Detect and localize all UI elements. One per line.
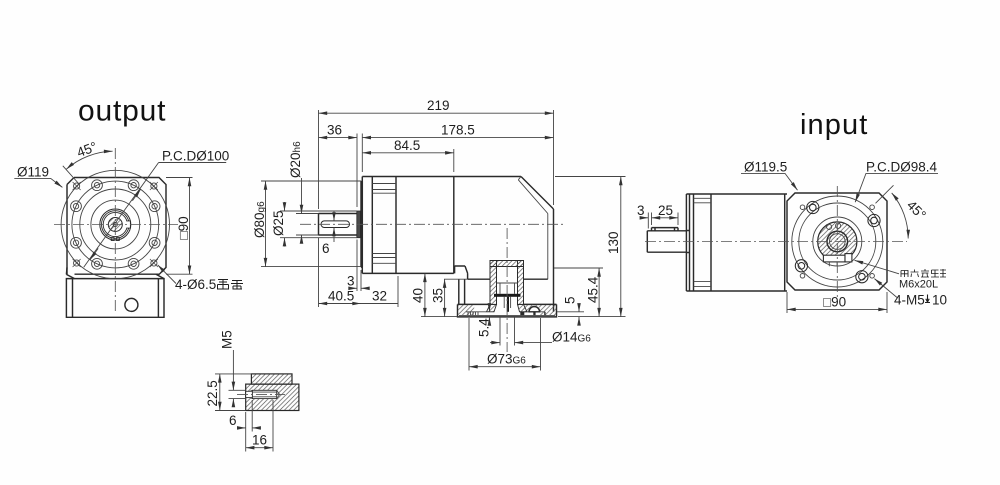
dim 6 keyway [333,212,335,221]
right face inner [547,214,549,280]
dim 16 [246,400,273,452]
4 socket head screws M6 [795,201,880,282]
PCD diameter diagonal with arrows [84,163,159,268]
dim 32 [397,276,399,307]
inner boss circle [91,200,140,249]
dim D80g6 [261,181,361,267]
output shaft [319,214,358,236]
hole centerline [237,393,285,395]
centerline horizontal [54,224,178,226]
dim 5.4 [488,305,490,312]
input square flange (chamfered corners) [787,193,887,290]
svg-text:□90: □90 [823,294,846,309]
dim 3 and 25 [648,213,678,229]
bottom flange outline [458,304,557,317]
4 corner through holes [73,182,158,267]
svg-text:4-M5: 4-M5 [894,293,925,308]
svg-text:M5: M5 [220,330,235,349]
svg-text:6: 6 [229,413,237,428]
45 deg arc [892,193,909,239]
dim 84.5 [453,149,455,172]
body bottom edge [362,272,454,274]
45 deg arc dimension [66,151,112,169]
shaft bore [103,212,127,236]
thread lines [252,392,276,397]
dim 40 [424,273,426,316]
dim 5 [557,311,584,313]
svg-text:Ø25: Ø25 [271,210,286,236]
dim D73G6 [469,318,541,371]
dim 6 [246,400,253,432]
centerline vertical [114,148,116,312]
svg-text:32: 32 [372,288,387,303]
base housing box below flange [66,279,164,318]
coupling counterbore [827,231,848,252]
flange hatch left [458,305,474,315]
output shaft (side) [647,231,686,252]
leader 4-M5 [874,279,897,298]
centerline vertical [836,186,838,299]
svg-text:40: 40 [411,288,426,303]
svg-text:5.4: 5.4 [477,318,492,337]
drill point [277,390,280,398]
dim D25 [280,211,357,238]
svg-text:130: 130 [606,231,621,254]
4 M5 tapped holes [800,205,874,278]
D119 leader [14,178,62,187]
svg-text:Ø119.5: Ø119.5 [744,160,787,175]
dim 22.5 [215,374,251,411]
thread ticks bottom left [468,312,478,316]
collar step [686,231,689,253]
wall flare right [518,304,528,311]
dim 130 [555,177,626,317]
svg-text:5: 5 [563,296,578,304]
depth symbol [925,295,930,303]
keyway strip hatched [251,374,292,384]
bottom face extension line [421,316,458,318]
M5 thread hole [252,390,276,398]
8 bolt holes on PCD [71,180,160,269]
svg-text:3: 3 [347,274,355,289]
coupling screw holes [827,224,832,229]
flange hatch right [540,305,557,315]
outer circle (D119) [61,170,169,278]
dim 45.4 [554,267,603,269]
dim 40.5 [318,238,320,307]
coupling bore D14 [830,234,846,250]
clamp slot [823,255,845,262]
svg-text:40.5: 40.5 [328,288,354,303]
shaft section block hatched [246,384,299,410]
dim D20h6 [296,214,319,236]
coupling housing bore [813,217,862,266]
shaft end hatched section [108,218,122,232]
front housing section [395,177,397,274]
shaft collar D25 [357,211,361,238]
dim D14G6 [500,317,515,346]
hanzi nei liu jiao luo si (hex socket screw) [901,269,946,277]
svg-text:□90: □90 [176,216,191,239]
dim 35 [444,278,468,280]
sq90 dim [787,292,887,313]
4-D6.5 leader [158,265,176,284]
body side outline [686,194,787,291]
output square flange plate (chamfered corners) [66,178,166,279]
body top edge [362,176,521,178]
svg-text:36: 36 [327,123,342,138]
wall flare left [487,304,497,311]
svg-text:input: input [800,109,868,141]
svg-text:22.5: 22.5 [205,380,220,406]
svg-text:M6x20L: M6x20L [899,279,938,291]
body rear edge [784,194,786,291]
bottom step ledge [455,266,468,279]
sq90 dimension line [166,178,193,275]
shaft keyway slot [321,221,350,228]
svg-text:6: 6 [322,241,330,256]
retaining tabs [111,238,114,241]
hub outer double ring [100,209,131,240]
chamfer inner line [518,177,548,214]
svg-text:25: 25 [658,203,673,218]
P.C.D label underline [159,162,227,164]
dim 36 [356,134,358,208]
M5 dim [229,390,246,398]
flange recess line [459,312,555,316]
tower cavity lines [497,283,518,308]
step level lines [468,278,548,280]
base hole [125,298,138,311]
svg-text:16: 16 [252,433,267,448]
dark ticks in flange [520,312,524,316]
svg-text:4-Ø6.5: 4-Ø6.5 [175,277,216,292]
internal joint line 84.5 [453,177,455,274]
horizontal centerline [300,223,566,225]
counterbore dome [529,307,540,312]
flange bottom corner chamfer left [65,267,68,274]
countersink lines [250,390,252,398]
neck walls left [459,279,465,304]
right face outer [553,209,555,312]
hatch above dome [530,305,540,308]
tower top cap hatched [490,261,524,267]
centerline horizontal [645,241,907,243]
M5 hole entry [246,391,253,397]
svg-text:84.5: 84.5 [394,138,420,153]
recess circle inner [799,203,876,280]
svg-text:178.5: 178.5 [441,123,475,138]
slot lower ticks [829,262,837,266]
center hole [113,223,117,227]
svg-text:output: output [78,95,166,128]
bolt circle P.C.D [72,181,159,268]
dim 3 collar [357,240,361,292]
hanzi guan (through) [218,279,244,289]
svg-text:219: 219 [427,98,450,113]
housing step lines [694,198,712,286]
coupling tower walls hatched [490,261,497,305]
dim 219 [319,110,554,209]
clamp bar (black) [494,294,521,297]
svg-text:3: 3 [637,203,645,218]
flange hatch mid-right [524,305,530,312]
pilot boss D80 [361,182,362,268]
boss circle [80,189,151,260]
clamp screw [845,254,852,262]
dim 178.5 [361,134,363,173]
leader socket screw [855,260,900,274]
flange plate side [362,177,372,274]
svg-text:45.4: 45.4 [586,276,601,303]
coupling hatched section [818,222,857,261]
45 deg reference ray [63,166,80,185]
input axis centerline [506,228,508,352]
svg-text:35: 35 [431,288,446,303]
housing edge [710,194,712,291]
45 ray [876,185,894,203]
top right chamfer outer [521,177,554,210]
svg-text:P.C.DØ100: P.C.DØ100 [162,149,229,164]
flange plate edge [690,194,694,291]
svg-text:P.C.DØ98.4: P.C.DØ98.4 [866,160,938,175]
key on shaft [652,228,679,231]
svg-text:Ø119: Ø119 [17,165,49,180]
clamp screw shank [507,297,509,312]
bore keyway notch [126,221,130,228]
recess circle outer [792,196,883,287]
svg-text:10: 10 [932,293,947,308]
